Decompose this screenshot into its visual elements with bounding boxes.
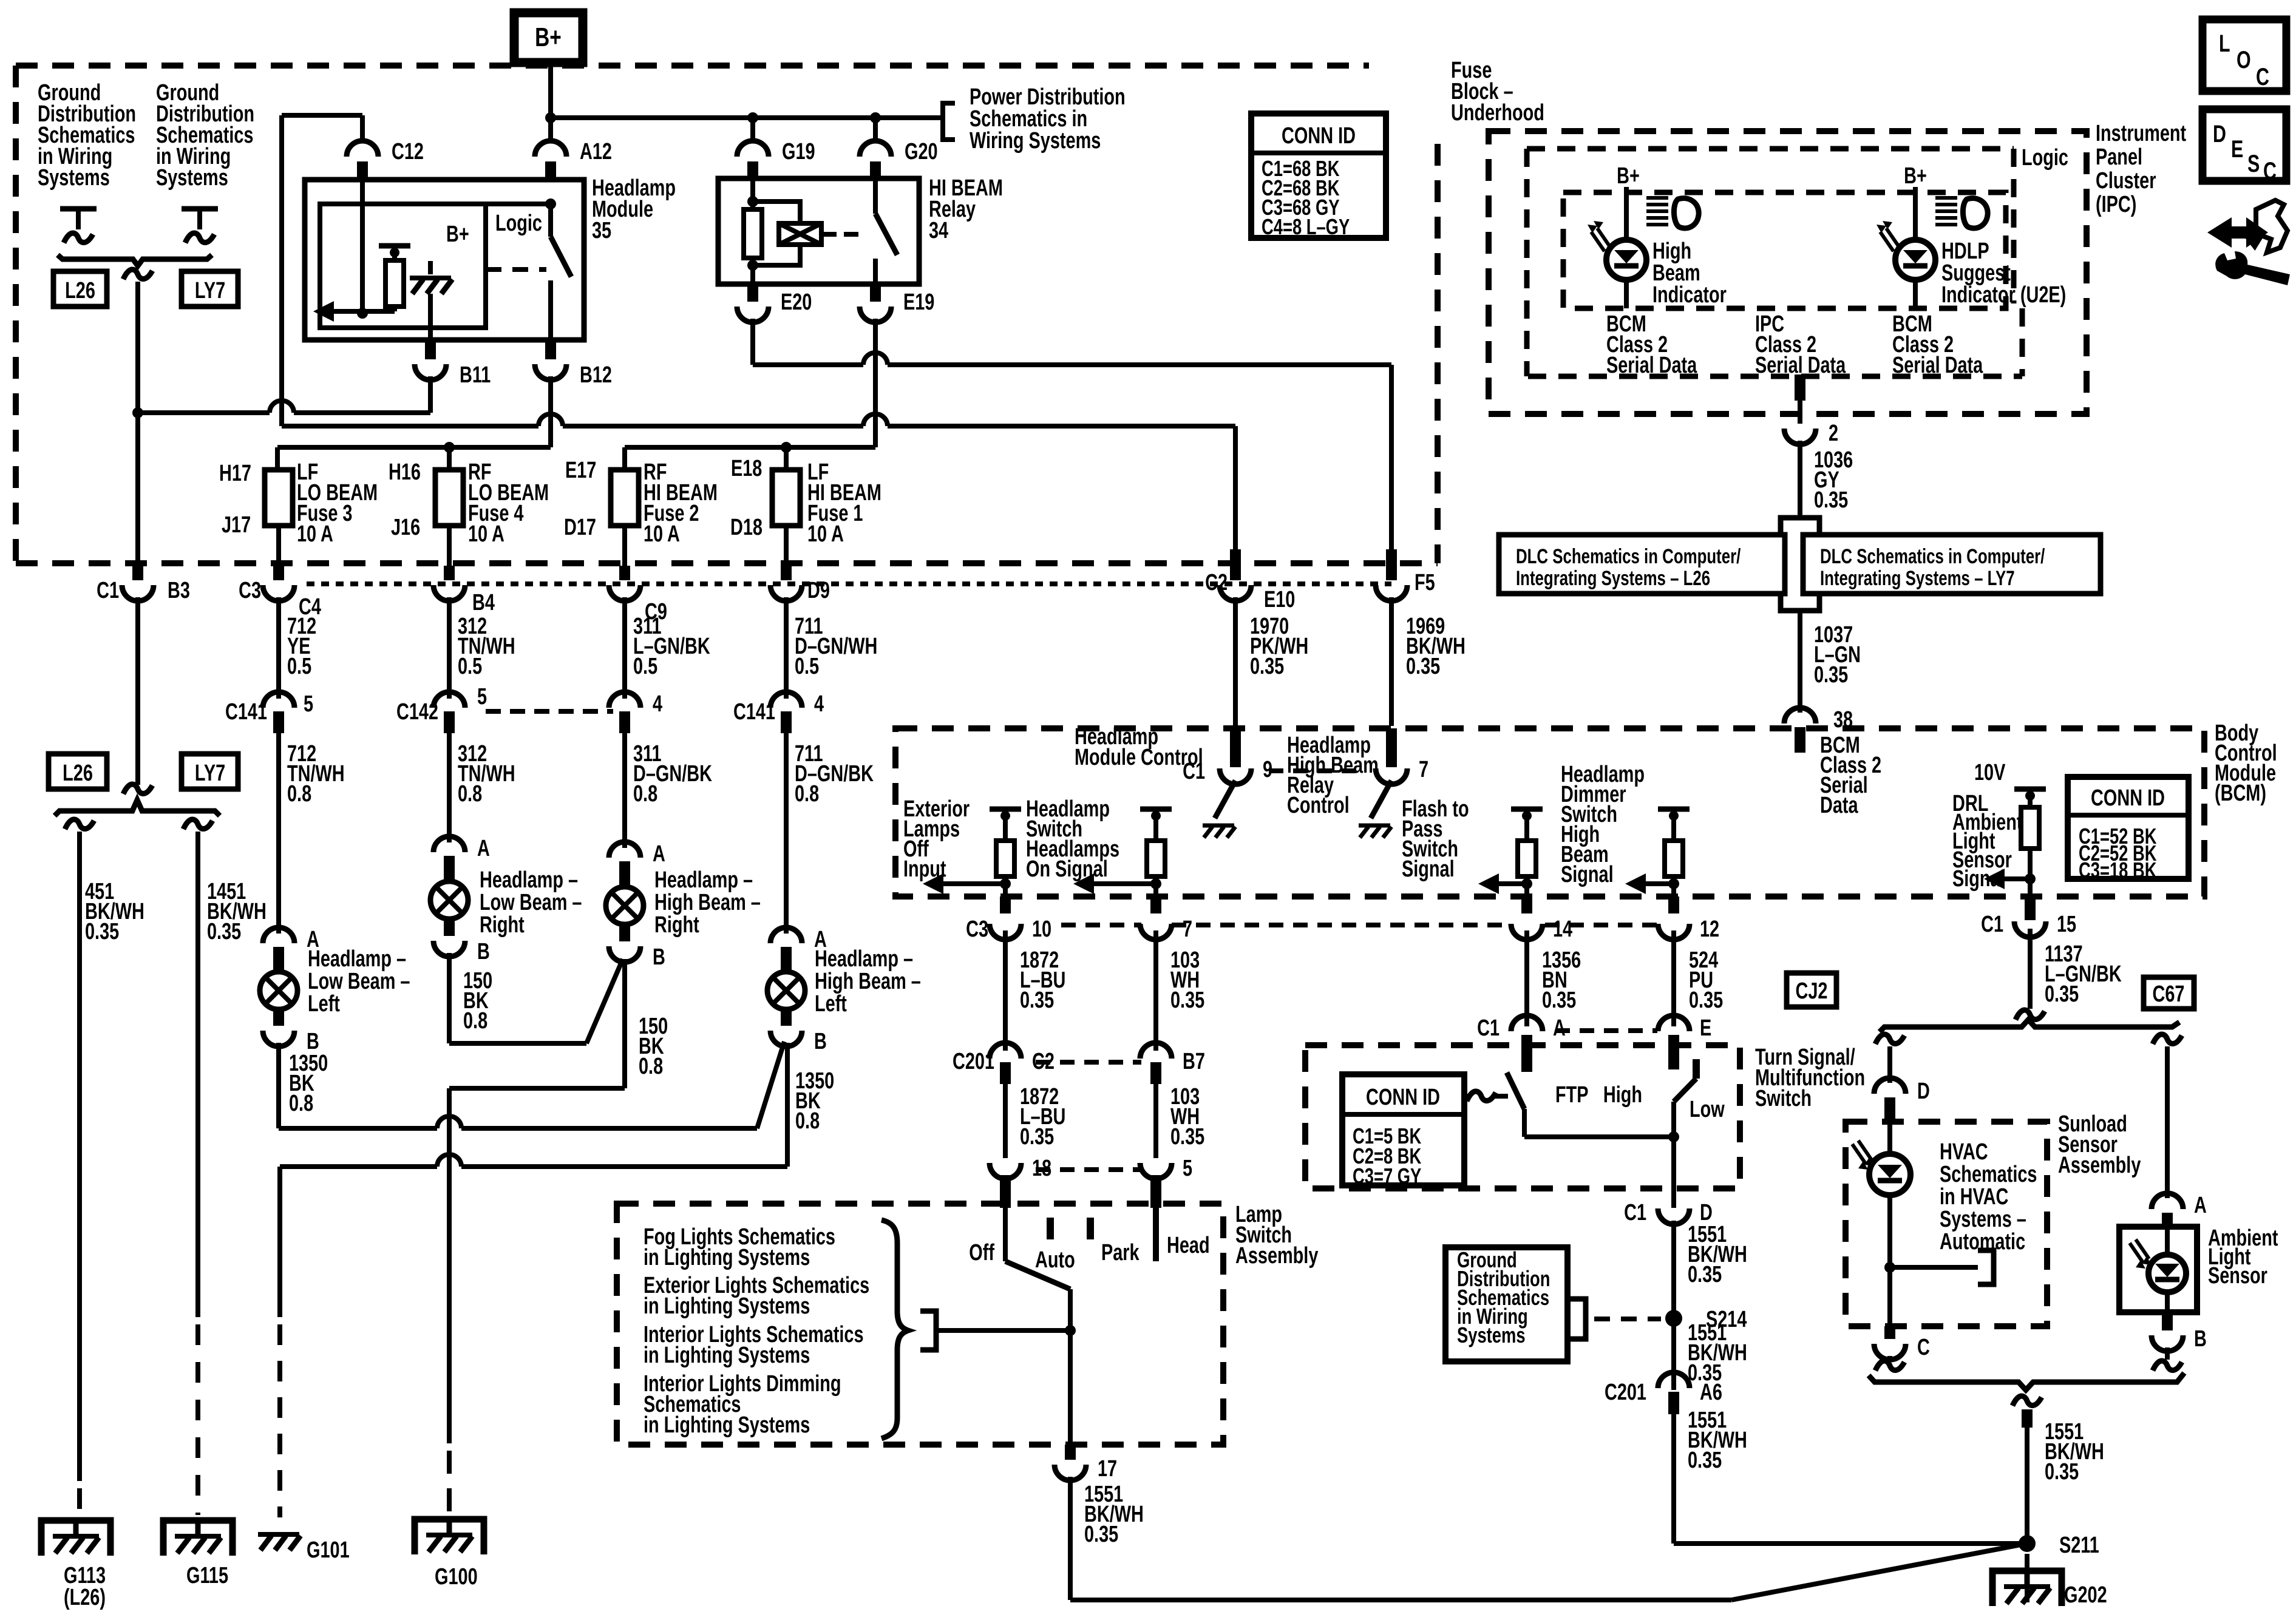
lamp switch head input	[1156, 1208, 1210, 1261]
label HI BEAM Relay 34	[929, 175, 1003, 243]
splice brace lower	[55, 800, 220, 816]
svg-text:34: 34	[929, 217, 948, 243]
wire 1037 run	[1798, 611, 1802, 713]
svg-text:17: 17	[1098, 1456, 1117, 1482]
svg-text:C141: C141	[733, 699, 775, 725]
ground link symbol L26	[60, 209, 97, 243]
label wire 1036 GY	[1814, 447, 1853, 513]
label Headlamp High Beam Relay Control	[1287, 732, 1379, 818]
svg-text:C3=7 GY: C3=7 GY	[1353, 1164, 1421, 1188]
led high beam indicator	[1588, 221, 1646, 280]
svg-text:G202: G202	[2064, 1582, 2107, 1608]
svg-text:B7: B7	[1183, 1048, 1205, 1074]
hi beam relay K34 box	[718, 178, 919, 284]
svg-text:B3: B3	[168, 577, 190, 603]
wire col 740 mid	[447, 597, 452, 699]
relay dashed link	[821, 232, 862, 237]
box LY7 first	[182, 271, 238, 307]
relay switch	[875, 178, 897, 284]
svg-text:B+: B+	[535, 23, 562, 52]
wire line C left	[277, 376, 551, 470]
module internal arrow	[313, 301, 395, 322]
svg-text:G101: G101	[307, 1537, 350, 1563]
svg-text:C201: C201	[953, 1048, 994, 1074]
svg-text:10 A: 10 A	[807, 521, 844, 547]
svg-text:Assembly: Assembly	[1235, 1242, 1319, 1269]
svg-text:in Lighting Systems: in Lighting Systems	[644, 1244, 810, 1270]
box DLC LY7	[1803, 535, 2101, 594]
headlamp module U35 box	[305, 180, 584, 340]
svg-text:Integrating Systems – L26: Integrating Systems – L26	[1516, 568, 1710, 590]
fuse F2 RF HI BEAM	[611, 459, 718, 547]
led sunload sensor	[1852, 1140, 1911, 1195]
svg-text:L: L	[2219, 30, 2230, 57]
wire 524 run	[1671, 930, 1676, 1026]
dashed link 18-5	[1036, 1167, 1141, 1172]
svg-text:J16: J16	[391, 514, 420, 540]
power distribution bracket	[943, 103, 955, 140]
fuse F1 LF HI BEAM	[772, 459, 881, 547]
connector A12	[535, 138, 612, 182]
svg-text:10 A: 10 A	[297, 521, 333, 547]
ambient light sensor box	[2119, 1227, 2197, 1312]
label Flash to Pass Switch Signal	[1402, 796, 1469, 882]
conn id box turn signal	[1342, 1074, 1464, 1188]
svg-text:B4: B4	[472, 589, 495, 615]
svg-text:Park: Park	[1101, 1239, 1140, 1266]
wire sunload led lower	[1884, 1195, 1895, 1326]
wire col 459 mid	[276, 597, 281, 699]
svg-text:Right: Right	[654, 912, 699, 938]
dashed link to S214	[1594, 1317, 1661, 1321]
svg-text:Indicator (U2E): Indicator (U2E)	[1941, 282, 2066, 308]
svg-text:0.8: 0.8	[795, 781, 819, 807]
wire E10 run	[1233, 426, 1238, 549]
label wire 524 PU	[1689, 947, 1723, 1013]
connector D9	[770, 577, 830, 603]
dlc pass bracket upper	[1781, 518, 1819, 535]
lamp switch bracket	[920, 1311, 936, 1350]
dashed link A-E	[1555, 1028, 1657, 1033]
svg-text:Underhood: Underhood	[1451, 100, 1544, 126]
ground G202	[1992, 1571, 2107, 1608]
connector C1-B3	[97, 577, 190, 603]
svg-text:CONN ID: CONN ID	[1366, 1084, 1440, 1110]
wire 103 upper	[1153, 930, 1158, 1051]
svg-text:B11: B11	[460, 362, 491, 388]
connector C141-4	[733, 691, 824, 733]
dlc pass bracket lower	[1781, 594, 1819, 611]
bcm conn id box	[2068, 777, 2189, 883]
wire E20 run	[753, 319, 1391, 549]
svg-text:Serial Data: Serial Data	[1606, 352, 1697, 378]
lamp switch assembly dashed box	[617, 1204, 1223, 1445]
wire 17 run	[1070, 1477, 2027, 1600]
wire ipc led2	[1913, 187, 1918, 238]
splice S214	[1665, 1306, 1747, 1332]
label wire 103 WH a	[1170, 947, 1204, 1013]
wire 1872 upper	[1003, 930, 1008, 1051]
connector B11	[415, 340, 491, 388]
svg-text:0.35: 0.35	[1020, 1123, 1054, 1150]
connector A ambient	[2152, 1192, 2207, 1227]
box DLC L26	[1499, 535, 1785, 594]
label wire 1037 L-GN	[1814, 622, 1861, 688]
wire main col stub	[132, 566, 143, 580]
ground distribution ref box	[1445, 1247, 1567, 1361]
ground G113	[41, 1520, 110, 1610]
lamp high beam right	[606, 887, 644, 924]
svg-text:4: 4	[653, 691, 662, 717]
connector E	[1658, 1015, 1711, 1069]
label Headlamp Module 35	[592, 175, 676, 243]
svg-text:0.8: 0.8	[287, 781, 311, 807]
svg-text:DLC Schematics in Computer/: DLC Schematics in Computer/	[1516, 546, 1741, 568]
svg-text:S211: S211	[2059, 1532, 2099, 1558]
svg-text:B: B	[2194, 1326, 2207, 1352]
svg-text:C1: C1	[97, 577, 119, 603]
beam glyph hdlp	[1935, 198, 1988, 228]
wire fuse F1 down	[784, 526, 789, 580]
svg-text:0.35: 0.35	[1814, 662, 1848, 688]
connector A high-right	[609, 841, 665, 886]
wire ipc led2 lower	[1913, 280, 1918, 308]
bcm exterior lamps off driver	[923, 809, 1021, 913]
svg-text:C: C	[2256, 63, 2269, 90]
svg-text:C3: C3	[966, 916, 988, 942]
label Headlamp Module Control	[1075, 724, 1203, 770]
svg-text:A12: A12	[580, 138, 612, 164]
svg-text:0.35: 0.35	[1250, 653, 1284, 679]
svg-text:Signal: Signal	[1402, 856, 1455, 882]
svg-text:0.5: 0.5	[458, 653, 482, 679]
label Instrument Panel Cluster	[2096, 120, 2186, 217]
hvac bracket	[1890, 1250, 1994, 1284]
connector A high-left	[770, 926, 827, 971]
svg-text:E17: E17	[565, 457, 596, 483]
svg-text:DLC Schematics in Computer/: DLC Schematics in Computer/	[1820, 546, 2045, 568]
fuse F3 LF LO BEAM	[265, 459, 378, 547]
connector B high-right	[609, 926, 665, 970]
svg-text:0.35: 0.35	[1542, 987, 1576, 1013]
lamp switch park stub	[1090, 1218, 1140, 1266]
svg-text:Serial Data: Serial Data	[1755, 352, 1846, 378]
connector B4	[433, 585, 495, 615]
bcm drl driver	[1974, 759, 2046, 912]
wire B+ feed right	[551, 112, 943, 123]
label wire 1872 L-BU a	[1020, 947, 1065, 1013]
svg-text:0.8: 0.8	[289, 1090, 313, 1116]
wire B to brace	[2153, 1347, 2182, 1371]
svg-text:0.35: 0.35	[1406, 653, 1440, 679]
wire 103 lower	[1153, 1084, 1158, 1158]
headlamp module inner logic box	[320, 198, 556, 328]
label wire 1551 BK/WH e	[2045, 1418, 2104, 1485]
bcm dimmer high beam driver	[1625, 809, 1690, 913]
turn signal multifunction dashed box	[1305, 1045, 1740, 1188]
svg-text:0.35: 0.35	[1084, 1521, 1118, 1547]
bcm high beam relay control switch	[1359, 756, 1428, 838]
instrument panel cluster dashed box	[1489, 131, 2087, 414]
label Ambient Light Sensor	[2208, 1225, 2278, 1289]
label wire 1872 L-BU b	[1020, 1083, 1065, 1150]
label wire 1350 BK a	[289, 1050, 328, 1116]
svg-text:O: O	[2237, 46, 2251, 73]
svg-text:Systems: Systems	[38, 164, 110, 191]
connector C201-C2	[953, 1043, 1055, 1084]
wire A6 to S211	[1674, 1414, 2027, 1544]
ground ref bracket	[1567, 1299, 1586, 1339]
wire F5 stub	[1386, 549, 1397, 580]
svg-text:Left: Left	[815, 991, 847, 1017]
ipc indicator dashed box	[1563, 192, 2006, 308]
connector C142-5	[396, 683, 487, 733]
wire col 1295 mid	[784, 597, 789, 699]
svg-text:C1: C1	[1477, 1015, 1500, 1041]
module pullup resistor R-int	[379, 246, 410, 311]
connector A low-left	[263, 926, 319, 971]
svg-text:Data: Data	[1820, 792, 1858, 818]
connector 12	[1658, 916, 1719, 942]
svg-text:0.35: 0.35	[1814, 487, 1848, 513]
svg-text:S: S	[2247, 150, 2260, 177]
connector B low-left	[263, 1010, 319, 1054]
svg-text:5: 5	[477, 683, 487, 710]
svg-text:C12: C12	[392, 138, 424, 164]
label wire 1551 BK/WH d	[1688, 1407, 1747, 1473]
label E18	[731, 455, 762, 481]
connector C141-5	[225, 691, 313, 733]
label H17	[219, 460, 251, 486]
wire 1451 run	[195, 832, 200, 1515]
label wire 1969 BK/WH	[1406, 613, 1466, 679]
connector C3-10	[966, 916, 1051, 942]
svg-text:E: E	[1700, 1015, 1711, 1041]
label exterior lights schematics	[644, 1272, 869, 1319]
label Headlamp Dimmer Switch High Beam Signal	[1561, 761, 1645, 887]
svg-text:Assembly: Assembly	[2058, 1152, 2141, 1178]
svg-text:F5: F5	[1415, 569, 1435, 595]
label BCM Class2 Serial Data	[1820, 732, 1881, 818]
wire low-right B to high-right B	[449, 953, 623, 1043]
relay coil X-box	[753, 202, 821, 265]
svg-text:C: C	[1917, 1334, 1930, 1360]
svg-text:A6: A6	[1700, 1379, 1722, 1405]
fuse block underhood dashed border	[16, 66, 1438, 563]
label wire 311 L-GN/BK	[633, 613, 710, 679]
wire col 740 to bulb	[447, 733, 452, 842]
label Fuse Block Underhood	[1451, 57, 1544, 126]
connector C1-D	[1624, 1199, 1713, 1225]
svg-text:(L26): (L26)	[64, 1584, 106, 1610]
svg-text:Off: Off	[969, 1239, 994, 1266]
connector B ambient	[2152, 1312, 2207, 1352]
svg-text:E10: E10	[1264, 586, 1295, 612]
wire col 459 to bulb	[276, 733, 281, 934]
wire 5 stub	[1150, 1175, 1161, 1208]
svg-text:(IPC): (IPC)	[2096, 191, 2136, 217]
connector B high-left	[770, 1010, 827, 1054]
connector C12	[347, 138, 424, 182]
svg-text:A: A	[1553, 1015, 1566, 1041]
wire line B run	[282, 414, 1235, 426]
module internal ground	[410, 261, 452, 359]
label Body Control Module	[2215, 720, 2277, 806]
label ground distribution L26	[38, 80, 136, 191]
wire line C right	[625, 319, 875, 470]
svg-text:E20: E20	[781, 289, 812, 315]
label J17	[222, 512, 251, 538]
wire ipc serial down	[1795, 374, 1805, 424]
ftp switch	[1467, 1073, 1589, 1137]
module logic dashed link	[486, 267, 546, 272]
power B+ box	[514, 13, 583, 63]
svg-text:G115: G115	[186, 1562, 228, 1588]
svg-text:B: B	[814, 1028, 827, 1054]
svg-text:Low: Low	[1690, 1096, 1725, 1122]
svg-text:Panel: Panel	[2096, 144, 2142, 170]
svg-text:B: B	[477, 938, 490, 964]
wire low-left B bus	[279, 1042, 784, 1128]
svg-text:0.35: 0.35	[1688, 1261, 1722, 1287]
svg-text:0.8: 0.8	[795, 1108, 820, 1134]
wire 451 run	[77, 832, 82, 1515]
splice brace lower right	[1869, 1373, 2184, 1390]
wire fuse F4 down	[447, 526, 452, 580]
svg-text:Switch: Switch	[1755, 1085, 1812, 1111]
ipc serial dashed box	[1528, 308, 2022, 376]
box DESC	[2203, 109, 2286, 185]
label wire 1451 BK/WH	[207, 878, 267, 944]
svg-text:18: 18	[1032, 1155, 1051, 1181]
svg-text:10: 10	[1032, 916, 1051, 942]
wire col 1295 to bulb	[784, 733, 789, 934]
label interior lights schematics	[644, 1321, 864, 1368]
wire high-left B to G101 run	[280, 1043, 787, 1517]
svg-text:C1: C1	[1981, 911, 2003, 937]
svg-text:H17: H17	[219, 460, 251, 486]
svg-text:LY7: LY7	[195, 760, 225, 786]
svg-text:14: 14	[1553, 916, 1572, 942]
body control module dashed box	[895, 728, 2204, 896]
connector 2	[1784, 420, 1838, 446]
bcm headlamp module control switch	[1183, 756, 1272, 838]
svg-text:Systems: Systems	[1457, 1323, 1526, 1347]
connector C3-C4	[239, 577, 321, 620]
svg-text:0.35: 0.35	[1170, 987, 1204, 1013]
svg-text:Logic: Logic	[495, 210, 542, 236]
svg-text:5: 5	[1183, 1155, 1192, 1181]
svg-text:D: D	[2213, 120, 2226, 147]
svg-text:10 A: 10 A	[468, 521, 504, 547]
label wire 1356 BN	[1542, 947, 1581, 1013]
svg-text:0.5: 0.5	[287, 653, 311, 679]
svg-text:A: A	[477, 835, 490, 861]
svg-text:Indicator: Indicator	[1652, 282, 1727, 308]
svg-text:0.35: 0.35	[1689, 987, 1723, 1013]
label B+ ipc right	[1904, 163, 1927, 189]
label IPC class2	[1755, 311, 1846, 378]
label interior lights dimming	[644, 1371, 841, 1438]
wire brace to S211	[2012, 1396, 2042, 1544]
label Power Distribution	[970, 84, 1126, 154]
label headlamp high left	[815, 946, 921, 1017]
svg-text:E: E	[2231, 135, 2243, 163]
connector 5	[1140, 1155, 1192, 1181]
connector C9	[609, 585, 667, 625]
splice brace top	[58, 255, 212, 266]
label B+ ipc left	[1617, 163, 1640, 189]
wire C12 feed	[282, 115, 362, 426]
label headlamp high right	[654, 867, 761, 938]
label headlamp low right	[480, 867, 582, 938]
svg-text:Sensor: Sensor	[2208, 1262, 2267, 1289]
connector B7	[1140, 1043, 1205, 1084]
wire col 1029 to bulb	[622, 733, 627, 848]
box L26 second	[49, 754, 107, 789]
connector 38	[1784, 707, 1853, 753]
lamp switch off input	[969, 1208, 1005, 1266]
label D18	[730, 514, 763, 540]
label D17	[564, 514, 596, 540]
label wire 711 D-GN/WH	[795, 613, 877, 679]
wire fuse F2 down	[622, 526, 627, 580]
wire G20 drop	[873, 118, 878, 142]
ground G101	[258, 1534, 350, 1563]
label wire 1137 L-GN/BK	[2045, 941, 2122, 1007]
label wire 150 BK b	[639, 1013, 668, 1079]
beam glyph high beam	[1646, 198, 1699, 228]
label ground distribution LY7	[156, 80, 254, 191]
wire ipc led1 lower	[1624, 280, 1629, 308]
svg-text:C141: C141	[225, 699, 267, 725]
label wire 712 TN/WH	[287, 741, 345, 807]
connector B12	[535, 340, 612, 388]
lamp high beam left	[767, 972, 805, 1009]
dashed connector line row2	[486, 709, 613, 714]
label Logic IPC	[2022, 144, 2068, 171]
label wire 451 BK/WH	[85, 878, 144, 944]
wire to turn signal D	[1875, 1034, 1904, 1083]
wire 1036 run	[1798, 441, 1802, 518]
connector 7b	[1140, 916, 1192, 942]
label HVAC schematics	[1940, 1139, 2037, 1255]
wire E10 mid	[1233, 597, 1238, 759]
wire 1356 run	[1524, 930, 1529, 1026]
svg-text:Head: Head	[1167, 1232, 1210, 1258]
led hdlp suggest indicator	[1877, 221, 1935, 280]
svg-text:B12: B12	[580, 362, 612, 388]
lamp switch blade	[1005, 1261, 1070, 1445]
svg-text:E18: E18	[731, 455, 762, 481]
wire brace to junction	[123, 269, 152, 566]
connector E20	[737, 284, 812, 322]
connector G20	[860, 138, 938, 181]
high low switch	[1603, 1059, 1725, 1137]
label Turn Signal Multifunction Switch	[1755, 1044, 1865, 1111]
label wire 711 D-GN/BK	[795, 741, 874, 807]
svg-text:C3=18 BK: C3=18 BK	[2079, 858, 2156, 883]
wire 18 stub	[1000, 1175, 1011, 1208]
label wire 312 TN/WH a	[458, 613, 515, 679]
wire bracket to common	[936, 1325, 1076, 1336]
label DRL Ambient Light Sensor Signal	[1952, 790, 2022, 892]
svg-text:5: 5	[304, 691, 313, 717]
label Exterior Lamps Off Input	[903, 796, 970, 882]
svg-text:B: B	[653, 944, 665, 970]
svg-text:10 A: 10 A	[644, 521, 680, 547]
label wire 712 YE	[287, 613, 316, 679]
